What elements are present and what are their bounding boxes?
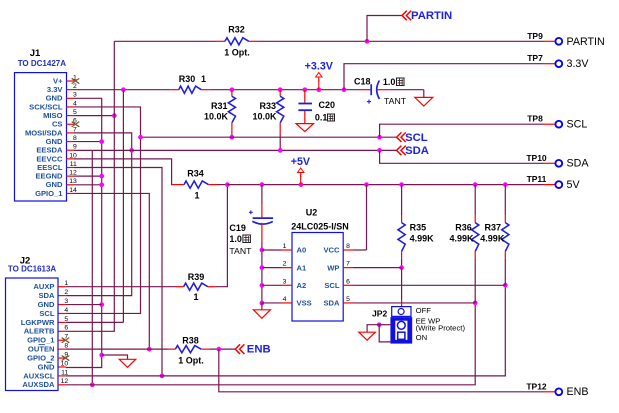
svg-text:PARTIN: PARTIN bbox=[567, 36, 605, 48]
svg-text:R39: R39 bbox=[188, 272, 205, 282]
svg-text:CS: CS bbox=[52, 120, 63, 129]
svg-text:SCL: SCL bbox=[324, 281, 340, 290]
svg-text:ALERTB: ALERTB bbox=[24, 327, 55, 336]
svg-text:SDA: SDA bbox=[405, 145, 429, 157]
svg-text:VSS: VSS bbox=[297, 299, 312, 308]
svg-text:3: 3 bbox=[64, 298, 68, 305]
svg-text:11: 11 bbox=[70, 161, 77, 168]
svg-text:R34: R34 bbox=[187, 169, 204, 179]
svg-text:SDA: SDA bbox=[323, 299, 340, 308]
svg-text:TP11: TP11 bbox=[527, 174, 547, 184]
svg-text:SDA: SDA bbox=[38, 291, 55, 300]
svg-text:1: 1 bbox=[64, 280, 68, 287]
svg-text:1 Opt.: 1 Opt. bbox=[178, 355, 204, 365]
svg-text:LGKPWR: LGKPWR bbox=[21, 318, 55, 327]
svg-text:13: 13 bbox=[69, 178, 77, 185]
svg-text:GPIO_2: GPIO_2 bbox=[27, 353, 54, 362]
svg-text:2: 2 bbox=[283, 261, 287, 268]
svg-text:GPIO_1: GPIO_1 bbox=[27, 336, 55, 345]
svg-text:TANT: TANT bbox=[384, 96, 407, 106]
svg-text:8: 8 bbox=[64, 343, 68, 350]
svg-text:GND: GND bbox=[46, 180, 63, 189]
svg-text:4: 4 bbox=[64, 307, 68, 314]
svg-text:TO DC1613A: TO DC1613A bbox=[8, 265, 57, 274]
svg-text:1.0: 1.0 bbox=[229, 234, 242, 244]
svg-text:TO DC1427A: TO DC1427A bbox=[18, 59, 67, 68]
svg-text:1 Opt.: 1 Opt. bbox=[224, 48, 250, 58]
svg-text:ENB: ENB bbox=[247, 344, 271, 356]
svg-text:MOSI/SDA: MOSI/SDA bbox=[25, 128, 63, 137]
svg-text:12: 12 bbox=[69, 170, 77, 177]
svg-text:7: 7 bbox=[346, 261, 350, 268]
svg-text:10: 10 bbox=[61, 360, 69, 367]
svg-text:GND: GND bbox=[46, 94, 63, 103]
svg-text:3: 3 bbox=[73, 92, 77, 99]
svg-text:4: 4 bbox=[283, 296, 287, 303]
svg-text:GPIO_1: GPIO_1 bbox=[35, 189, 63, 198]
svg-text:ENB: ENB bbox=[567, 386, 589, 398]
svg-text:R32: R32 bbox=[228, 25, 245, 35]
svg-text:PARTIN: PARTIN bbox=[411, 10, 452, 22]
svg-text:C20: C20 bbox=[319, 100, 336, 110]
svg-text:24LC025-I/SN: 24LC025-I/SN bbox=[291, 221, 349, 231]
svg-text:5: 5 bbox=[73, 109, 77, 116]
svg-text:4.99K: 4.99K bbox=[410, 233, 435, 243]
svg-text:A0: A0 bbox=[297, 246, 307, 255]
svg-text:VCC: VCC bbox=[323, 246, 340, 255]
svg-text:11: 11 bbox=[61, 369, 68, 376]
svg-text:SCL: SCL bbox=[39, 309, 55, 318]
svg-text:TP7: TP7 bbox=[527, 53, 543, 63]
svg-text:SCK/SCL: SCK/SCL bbox=[29, 102, 63, 111]
svg-text:4: 4 bbox=[73, 100, 77, 107]
svg-text:AUXSDA: AUXSDA bbox=[22, 380, 55, 389]
svg-text:AUXSCL: AUXSCL bbox=[23, 371, 55, 380]
svg-text:EESCL: EESCL bbox=[37, 163, 63, 172]
svg-text:R33: R33 bbox=[259, 101, 276, 111]
svg-text:SDA: SDA bbox=[567, 158, 590, 170]
svg-text:5: 5 bbox=[346, 296, 350, 303]
svg-text:JP2: JP2 bbox=[372, 309, 388, 319]
svg-text:EESDA: EESDA bbox=[36, 146, 63, 155]
svg-text:C19: C19 bbox=[229, 223, 246, 233]
svg-text:0.1: 0.1 bbox=[315, 113, 328, 123]
svg-text:1: 1 bbox=[194, 191, 199, 201]
svg-text:A2: A2 bbox=[297, 281, 307, 290]
svg-text:R30: R30 bbox=[179, 74, 196, 84]
svg-text:C18: C18 bbox=[354, 77, 371, 87]
svg-text:R38: R38 bbox=[182, 336, 199, 346]
svg-text:TP12: TP12 bbox=[526, 381, 547, 391]
svg-text:R31: R31 bbox=[211, 101, 228, 111]
svg-text:TP8: TP8 bbox=[527, 114, 543, 124]
svg-text:(Write Protect): (Write Protect) bbox=[416, 323, 466, 332]
svg-text:5V: 5V bbox=[567, 179, 581, 191]
svg-text:SCL: SCL bbox=[405, 132, 428, 144]
svg-text:R36: R36 bbox=[455, 222, 472, 232]
svg-text:+3.3V: +3.3V bbox=[305, 61, 334, 73]
svg-text:R37: R37 bbox=[485, 222, 502, 232]
svg-text:10: 10 bbox=[69, 152, 77, 159]
svg-text:V+: V+ bbox=[53, 76, 63, 85]
svg-text:+5V: +5V bbox=[291, 156, 311, 168]
svg-text:2: 2 bbox=[73, 83, 77, 90]
svg-text:4.99K: 4.99K bbox=[480, 233, 505, 243]
svg-text:AUXP: AUXP bbox=[33, 282, 54, 291]
svg-text:8: 8 bbox=[346, 243, 350, 250]
svg-text:1.0: 1.0 bbox=[383, 77, 396, 87]
svg-text:EEGND: EEGND bbox=[35, 172, 63, 181]
svg-text:9: 9 bbox=[73, 144, 77, 151]
svg-text:7: 7 bbox=[73, 126, 77, 133]
svg-text:OFF: OFF bbox=[416, 306, 432, 315]
svg-text:5: 5 bbox=[64, 316, 68, 323]
svg-text:TANT: TANT bbox=[229, 246, 252, 256]
svg-text:4.99K: 4.99K bbox=[449, 233, 474, 243]
svg-text:8: 8 bbox=[73, 135, 77, 142]
svg-text:14: 14 bbox=[69, 187, 77, 194]
svg-text:GND: GND bbox=[38, 300, 55, 309]
svg-text:TP10: TP10 bbox=[526, 153, 547, 163]
svg-text:WP: WP bbox=[327, 263, 339, 272]
svg-text:1: 1 bbox=[193, 292, 198, 302]
svg-text:3.3V: 3.3V bbox=[567, 58, 590, 70]
svg-text:U2: U2 bbox=[306, 207, 318, 217]
svg-text:OUTEN: OUTEN bbox=[28, 345, 55, 354]
svg-text:J1: J1 bbox=[30, 48, 41, 59]
svg-text:6: 6 bbox=[64, 325, 68, 332]
svg-text:2: 2 bbox=[64, 289, 68, 296]
svg-text:ON: ON bbox=[416, 333, 428, 342]
svg-text:10.0K: 10.0K bbox=[204, 112, 229, 122]
svg-text:1: 1 bbox=[283, 243, 287, 250]
svg-text:6: 6 bbox=[346, 278, 350, 285]
svg-text:EEVCC: EEVCC bbox=[36, 154, 63, 163]
svg-text:12: 12 bbox=[61, 378, 69, 385]
svg-text:TP9: TP9 bbox=[527, 31, 543, 41]
svg-text:SCL: SCL bbox=[567, 119, 588, 131]
svg-text:10.0K: 10.0K bbox=[252, 112, 277, 122]
svg-text:A1: A1 bbox=[297, 263, 307, 272]
svg-text:GND: GND bbox=[38, 362, 55, 371]
svg-text:GND: GND bbox=[46, 137, 63, 146]
svg-text:3.3V: 3.3V bbox=[47, 85, 64, 94]
svg-text:MISO: MISO bbox=[43, 111, 63, 120]
svg-text:3: 3 bbox=[283, 278, 287, 285]
svg-text:R35: R35 bbox=[410, 222, 427, 232]
svg-text:1: 1 bbox=[201, 74, 206, 84]
